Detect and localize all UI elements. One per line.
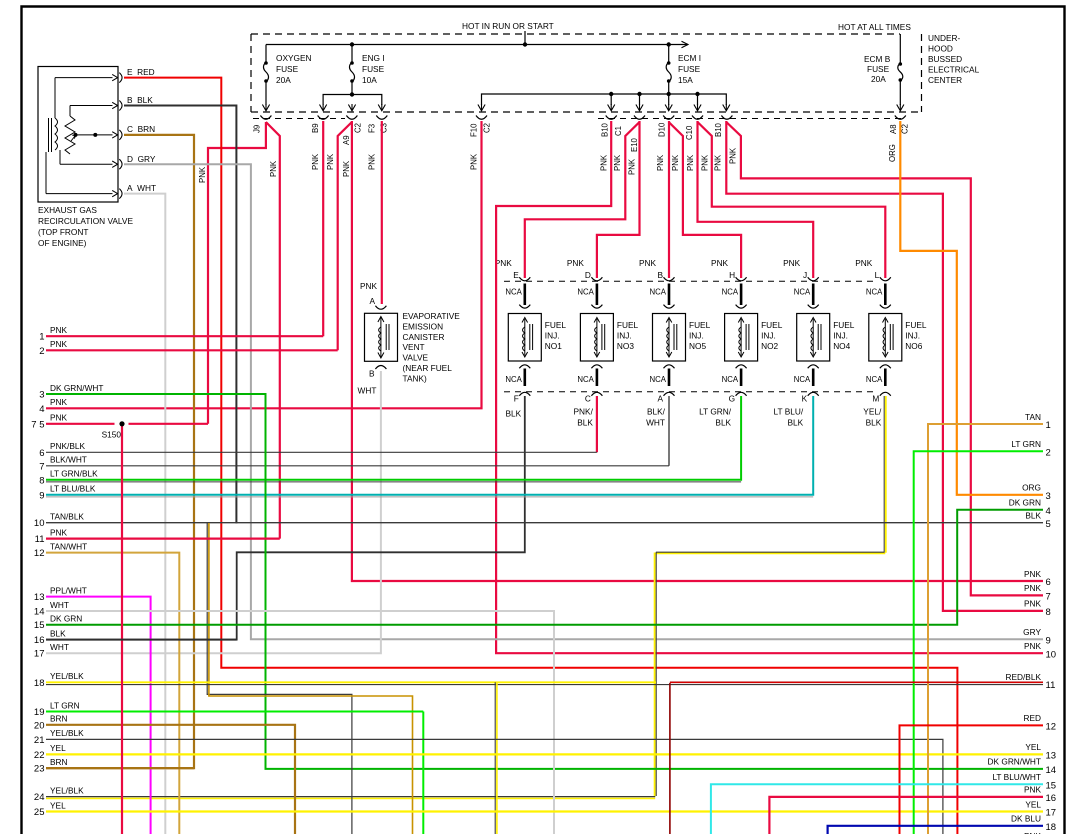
svg-text:4: 4 <box>1046 506 1051 517</box>
row 7 BLK/WHT lead <box>46 465 669 467</box>
svg-text:10: 10 <box>34 518 45 529</box>
wire PNK S150 drop <box>121 424 123 834</box>
svg-text:D: D <box>585 270 591 280</box>
svg-text:PNK: PNK <box>729 147 738 164</box>
svg-text:8: 8 <box>1046 607 1051 618</box>
svg-text:F10: F10 <box>470 123 479 137</box>
svg-text:PNK: PNK <box>1024 583 1042 593</box>
EGR coil (solenoid) <box>49 118 58 152</box>
svg-text:PNK: PNK <box>470 153 479 170</box>
svg-text:12: 12 <box>34 548 45 559</box>
wire PNK A9 to row 2 <box>338 122 352 350</box>
svg-text:TAN/BLK: TAN/BLK <box>50 512 84 522</box>
fuse OXYGEN FUSE 20A <box>264 45 269 106</box>
row 8 black stripe <box>46 481 741 483</box>
svg-text:C1: C1 <box>614 126 623 136</box>
wire YEL-BLK pin M black stripe <box>656 552 885 796</box>
svg-text:16: 16 <box>1046 793 1057 804</box>
svg-text:4: 4 <box>39 404 44 415</box>
svg-text:NCA: NCA <box>650 288 667 297</box>
svg-text:B10: B10 <box>601 122 610 137</box>
junction dots on top bus <box>350 42 671 46</box>
svg-text:WHT: WHT <box>50 600 69 610</box>
svg-text:PNK: PNK <box>269 160 278 177</box>
svg-text:TAN: TAN <box>1025 412 1041 422</box>
row 11 PNK <box>46 537 280 539</box>
svg-text:11: 11 <box>35 534 45 545</box>
bus HOT IN RUN OR START <box>266 44 684 46</box>
svg-text:WHT: WHT <box>646 418 665 428</box>
svg-text:INJ.: INJ. <box>617 330 632 340</box>
svg-text:DK GRN: DK GRN <box>50 614 82 624</box>
svg-text:RED: RED <box>1023 713 1041 723</box>
EGR valve box <box>38 67 118 203</box>
wire color labels rotated PNK/ORG <box>198 144 897 183</box>
svg-text:PNK: PNK <box>50 413 68 423</box>
svg-text:3: 3 <box>39 390 44 401</box>
wire DK GRN-WHT row 3 to right row 14 <box>46 394 1043 769</box>
svg-text:PNK: PNK <box>613 154 622 171</box>
right row 11 red top <box>670 681 1043 683</box>
svg-text:NCA: NCA <box>577 288 594 297</box>
svg-text:PNK: PNK <box>50 397 68 407</box>
svg-text:PNK: PNK <box>1024 599 1042 609</box>
svg-text:19: 19 <box>34 707 45 718</box>
svg-text:FUEL: FUEL <box>617 320 639 330</box>
svg-text:PPL/WHT: PPL/WHT <box>50 585 87 595</box>
svg-text:ORG: ORG <box>1022 483 1041 493</box>
svg-text:YEL/BLK: YEL/BLK <box>50 785 84 795</box>
right pin numbers and wire labels <box>988 412 1057 834</box>
svg-text:1: 1 <box>1046 420 1051 431</box>
svg-text:13: 13 <box>1046 751 1057 762</box>
wire YEL-BLK injector NO6 pin M <box>883 396 885 553</box>
svg-text:13: 13 <box>34 592 45 603</box>
svg-text:M: M <box>872 394 879 404</box>
svg-text:2: 2 <box>1046 447 1051 458</box>
svg-text:16: 16 <box>34 635 45 646</box>
row 18 YEL/BLK black <box>46 684 1043 686</box>
row 2 PNK <box>46 349 338 351</box>
node tick under HOT IN RUN OR START <box>524 31 526 45</box>
svg-text:YEL: YEL <box>50 743 66 753</box>
svg-text:PNK/BLK: PNK/BLK <box>50 441 86 451</box>
svg-text:PNK: PNK <box>855 258 873 268</box>
wire PNK C2 to right row 6 <box>352 121 1043 581</box>
svg-text:RECIRCULATION VALVE: RECIRCULATION VALVE <box>38 216 133 226</box>
wire PNK right row 16 <box>769 797 1043 834</box>
svg-text:10: 10 <box>1046 649 1057 660</box>
EVAP pin B connector arc <box>375 366 386 370</box>
svg-text:NO6: NO6 <box>905 341 922 351</box>
row 1 PNK <box>46 335 323 337</box>
svg-text:9: 9 <box>39 490 44 501</box>
EVAP pin A connector arc <box>375 306 386 310</box>
wire PNK ECM B10 to right row 10 <box>496 121 1043 653</box>
svg-text:C2: C2 <box>354 123 363 133</box>
wire DK BLU right row 18 <box>828 826 1043 834</box>
svg-text:LT GRN: LT GRN <box>50 700 80 710</box>
wire PNK B9 to row 1 <box>322 121 324 336</box>
svg-text:PNK: PNK <box>783 258 801 268</box>
svg-text:GRY: GRY <box>1023 627 1041 637</box>
injector lower wire color labels <box>506 407 882 428</box>
row 10 branch tan <box>209 523 413 834</box>
svg-text:INJ.: INJ. <box>689 330 704 340</box>
svg-text:11: 11 <box>1046 680 1056 691</box>
svg-text:E10: E10 <box>630 137 639 152</box>
svg-text:BLK: BLK <box>1025 511 1041 521</box>
wire PPL-WHT row 13 <box>46 597 151 834</box>
svg-text:BRN: BRN <box>50 757 68 767</box>
svg-text:PNK: PNK <box>1024 569 1042 579</box>
svg-text:FUSE: FUSE <box>362 64 385 74</box>
svg-text:PNK: PNK <box>567 258 585 268</box>
svg-text:DK BLU: DK BLU <box>1011 814 1041 824</box>
svg-text:PNK: PNK <box>1024 785 1042 795</box>
svg-text:NO4: NO4 <box>833 341 850 351</box>
svg-text:UNDER-: UNDER- <box>928 33 961 43</box>
svg-text:ORG: ORG <box>888 144 897 162</box>
svg-text:PNK: PNK <box>50 527 68 537</box>
svg-text:BUSSED: BUSSED <box>928 54 962 64</box>
svg-text:9: 9 <box>1046 635 1051 646</box>
wire PNK C10 to injector NO4 pin J <box>698 121 814 278</box>
svg-text:BLK: BLK <box>715 418 731 428</box>
svg-text:K: K <box>802 394 808 404</box>
svg-text:CENTER: CENTER <box>928 75 962 85</box>
wire LT GRN right row 2 <box>914 451 1043 834</box>
svg-text:PNK: PNK <box>50 339 68 349</box>
row 18 branch black <box>494 682 496 834</box>
svg-text:D GRY: D GRY <box>127 154 156 164</box>
fuel injector U3 NO5 <box>653 277 686 396</box>
svg-text:LT GRN: LT GRN <box>1011 439 1041 449</box>
svg-text:C10: C10 <box>685 125 694 140</box>
fuel injector U4 NO2 <box>725 277 758 396</box>
svg-text:FUEL: FUEL <box>833 320 855 330</box>
fuel injector U2 NO3 <box>580 277 613 396</box>
left pin numbers and wire labels <box>31 325 103 818</box>
svg-text:ENG I: ENG I <box>362 53 385 63</box>
svg-text:EXHAUST GAS: EXHAUST GAS <box>38 205 97 215</box>
row 16 BLK <box>46 639 237 641</box>
wire BLK EGR pin B <box>124 106 236 524</box>
svg-text:PNK: PNK <box>711 258 729 268</box>
fuse output arrows at dashed line <box>262 104 904 111</box>
svg-text:(NEAR FUEL: (NEAR FUEL <box>403 363 453 373</box>
wire BRN row 23 <box>46 767 194 769</box>
svg-text:HOT IN RUN OR START: HOT IN RUN OR START <box>462 21 554 31</box>
svg-text:C2: C2 <box>483 123 492 133</box>
svg-text:25: 25 <box>34 807 45 818</box>
svg-text:FUEL: FUEL <box>689 320 711 330</box>
injector bank dashed connector lines <box>504 281 878 392</box>
wire LT BLU-WHT right row 15 <box>711 784 1043 834</box>
svg-text:PNK: PNK <box>714 154 723 171</box>
svg-text:24: 24 <box>34 792 45 803</box>
svg-text:CANISTER: CANISTER <box>403 332 445 342</box>
svg-text:5: 5 <box>1046 519 1051 530</box>
svg-text:H: H <box>729 270 735 280</box>
svg-text:LT GRN/: LT GRN/ <box>699 407 732 417</box>
svg-text:BLK: BLK <box>506 409 522 419</box>
svg-text:INJ.: INJ. <box>545 330 560 340</box>
svg-text:ECM I: ECM I <box>678 53 701 63</box>
svg-text:3: 3 <box>1046 491 1051 502</box>
svg-text:NO2: NO2 <box>761 341 778 351</box>
svg-text:BLK: BLK <box>788 418 804 428</box>
connector face dashed lines <box>253 118 906 120</box>
wire YEL row 22 to right row 13 <box>46 753 1043 755</box>
svg-text:DK GRN: DK GRN <box>1009 498 1041 508</box>
wire PNK D10 branch to injector NO2 pin H <box>669 122 741 278</box>
ECM I rail <box>482 94 727 105</box>
svg-text:FUEL: FUEL <box>905 320 927 330</box>
svg-text:B9: B9 <box>311 123 320 133</box>
svg-text:BLK/: BLK/ <box>647 407 666 417</box>
svg-text:PNK: PNK <box>1024 641 1042 651</box>
svg-text:21: 21 <box>34 735 45 746</box>
wire YEL row 25 to right row 17 <box>46 810 1043 812</box>
svg-text:BLK: BLK <box>50 628 66 638</box>
svg-text:1: 1 <box>39 332 44 343</box>
svg-text:C BRN: C BRN <box>127 124 155 134</box>
svg-text:PNK: PNK <box>671 154 680 171</box>
wire TAN-WHT row 12 <box>46 553 179 834</box>
svg-text:NO5: NO5 <box>689 341 706 351</box>
wire RED-BLK right row 11 <box>670 682 1043 834</box>
wire WHT row 14 <box>46 611 554 834</box>
svg-text:PNK/: PNK/ <box>574 407 594 417</box>
svg-text:ELECTRICAL: ELECTRICAL <box>928 65 980 75</box>
connector arcs below dashed line <box>260 116 905 120</box>
wire TAN right row 1 <box>928 424 1043 834</box>
svg-text:NCA: NCA <box>866 288 883 297</box>
svg-text:A: A <box>370 296 376 306</box>
svg-text:NCA: NCA <box>505 288 522 297</box>
svg-text:J9: J9 <box>253 125 262 133</box>
svg-text:BRN: BRN <box>50 714 68 724</box>
svg-text:PNK: PNK <box>656 154 665 171</box>
fuel injector U6 NO6 <box>869 277 902 396</box>
svg-text:EVAPORATIVE: EVAPORATIVE <box>403 311 461 321</box>
svg-text:15A: 15A <box>678 75 693 85</box>
svg-text:22: 22 <box>34 750 45 761</box>
svg-text:PNK: PNK <box>686 154 695 171</box>
svg-text:NO1: NO1 <box>545 341 562 351</box>
svg-text:B: B <box>369 369 375 379</box>
wire BRN row 20 <box>46 725 295 834</box>
svg-text:14: 14 <box>1046 765 1057 776</box>
svg-text:OXYGEN: OXYGEN <box>276 53 312 63</box>
svg-text:14: 14 <box>34 607 45 618</box>
svg-text:YEL/BLK: YEL/BLK <box>50 728 84 738</box>
svg-text:F3: F3 <box>368 124 377 133</box>
wire PNK B10 to right row 8 <box>726 121 1043 611</box>
svg-text:PNK: PNK <box>701 154 710 171</box>
wire DK GRN row 15 to right row 4 <box>46 510 1043 625</box>
terminal labels rotated <box>253 122 910 152</box>
svg-text:NCA: NCA <box>505 375 522 384</box>
EGR internal wiring <box>46 78 113 194</box>
svg-text:PNK: PNK <box>50 325 68 335</box>
svg-text:OF ENGINE): OF ENGINE) <box>38 238 87 248</box>
fuse ECM B FUSE 20A <box>898 34 903 105</box>
svg-text:15: 15 <box>34 620 45 631</box>
wire BLK injector NO1 pin F to row 16 <box>46 396 525 640</box>
svg-text:FUSE: FUSE <box>678 64 701 74</box>
svg-text:L: L <box>875 270 880 280</box>
svg-text:INJ.: INJ. <box>833 330 848 340</box>
svg-text:PNK: PNK <box>198 166 207 183</box>
svg-text:J: J <box>803 270 807 280</box>
svg-text:A8: A8 <box>889 124 898 134</box>
svg-text:YEL: YEL <box>1025 799 1041 809</box>
wire PNK J9 to row 5 <box>208 122 266 424</box>
svg-text:INJ.: INJ. <box>905 330 920 340</box>
svg-text:TANK): TANK) <box>403 373 428 383</box>
svg-text:C: C <box>585 394 591 404</box>
svg-text:FUEL: FUEL <box>761 320 783 330</box>
row 5 PNK <box>46 423 208 425</box>
svg-text:17: 17 <box>34 649 45 660</box>
svg-text:HOOD: HOOD <box>928 44 953 54</box>
svg-text:F: F <box>514 394 519 404</box>
wire PNK B10 branch to right row 7 <box>726 122 1043 595</box>
wire LT GRN row 19 <box>46 711 423 713</box>
wire LT GRN-BLK injector NO2 pin G to row 8 <box>46 396 741 480</box>
svg-text:NCA: NCA <box>577 375 594 384</box>
svg-text:NCA: NCA <box>866 375 883 384</box>
svg-text:(TOP FRONT: (TOP FRONT <box>38 227 88 237</box>
wire PNK C1 to injector NO1 pin E <box>525 122 640 278</box>
wire RED EGR pin E <box>124 78 957 834</box>
EGR pin arrows and arcs <box>119 73 122 199</box>
svg-text:INJ.: INJ. <box>761 330 776 340</box>
svg-text:20A: 20A <box>276 75 291 85</box>
row 24 YEL/BLK black <box>46 796 655 798</box>
svg-text:NCA: NCA <box>650 375 667 384</box>
svg-text:BLK: BLK <box>577 418 593 428</box>
svg-text:A: A <box>657 394 663 404</box>
svg-text:PNK: PNK <box>495 258 513 268</box>
wire GRY EGR pin D to right row 9 <box>124 164 1043 639</box>
wire PNK E10 to injector NO3 pin D <box>597 121 640 278</box>
svg-text:NCA: NCA <box>794 375 811 384</box>
wire PNK C10 branch to injector NO6 pin L <box>698 122 886 278</box>
svg-text:G: G <box>729 394 735 404</box>
svg-text:18: 18 <box>34 678 45 689</box>
wire YEL-BLK injector NO6 pin M yellow <box>655 396 886 797</box>
row 18 branch yellow <box>496 682 498 834</box>
svg-text:LT BLU/BLK: LT BLU/BLK <box>50 484 96 494</box>
wire WHT EVAP pin B to row 17 <box>46 371 381 653</box>
svg-text:NCA: NCA <box>722 375 739 384</box>
svg-text:PNK: PNK <box>600 154 609 171</box>
ENG I fuse splitter rail <box>323 95 382 106</box>
svg-text:A9: A9 <box>342 135 351 145</box>
svg-text:LT BLU/: LT BLU/ <box>774 407 804 417</box>
svg-text:DK GRN/WHT: DK GRN/WHT <box>50 383 103 393</box>
wire ORG A8-C2 to right row 3 <box>900 121 1043 495</box>
svg-text:23: 23 <box>34 764 45 775</box>
row 9 stripe <box>46 496 813 498</box>
svg-text:FUSE: FUSE <box>867 64 890 74</box>
svg-text:D10: D10 <box>658 122 667 137</box>
row 10 branch black <box>207 523 352 834</box>
svg-text:E RED: E RED <box>127 67 155 77</box>
svg-text:17: 17 <box>1046 808 1057 819</box>
svg-text:LT GRN/BLK: LT GRN/BLK <box>50 469 98 479</box>
row 18 YEL/BLK yellow <box>46 681 656 683</box>
svg-text:12: 12 <box>1046 722 1057 733</box>
wire PNK F10-C2 to row 4 <box>46 121 482 408</box>
svg-text:E: E <box>513 270 519 280</box>
svg-text:YEL: YEL <box>50 800 66 810</box>
wire PNK-BLK injector NO3 pin C <box>596 396 598 452</box>
svg-text:PNK: PNK <box>326 153 335 170</box>
svg-text:A WHT: A WHT <box>127 183 156 193</box>
svg-text:PNK: PNK <box>311 153 320 170</box>
row 21 YEL/BLK <box>46 739 943 834</box>
svg-text:EMISSION: EMISSION <box>403 321 444 331</box>
EGR potentiometer <box>65 116 79 154</box>
bus arrow right <box>682 41 689 47</box>
svg-text:YEL/: YEL/ <box>863 407 882 417</box>
svg-text:TAN/WHT: TAN/WHT <box>50 541 87 551</box>
svg-text:YEL: YEL <box>1025 742 1041 752</box>
svg-text:7: 7 <box>39 461 44 472</box>
svg-text:ECM B: ECM B <box>864 54 891 64</box>
svg-text:S150: S150 <box>102 430 122 440</box>
svg-text:WHT: WHT <box>358 386 377 396</box>
svg-text:15: 15 <box>1046 781 1057 792</box>
EVAP canister vent valve <box>365 313 398 361</box>
row 6 PNK/BLK lead <box>46 451 597 453</box>
wire LT BLU-BLK injector NO4 pin K to row 9 <box>46 396 813 495</box>
svg-text:B10: B10 <box>714 122 723 137</box>
svg-text:WHT: WHT <box>50 642 69 652</box>
svg-text:YEL/BLK: YEL/BLK <box>50 671 84 681</box>
svg-text:NO3: NO3 <box>617 341 634 351</box>
svg-text:10A: 10A <box>362 75 377 85</box>
EVAP internal coil <box>379 317 389 359</box>
svg-text:LT BLU/WHT: LT BLU/WHT <box>992 772 1041 782</box>
wire BRN EGR pin C to row 23 <box>46 135 194 768</box>
svg-text:NCA: NCA <box>794 288 811 297</box>
svg-text:PNK: PNK <box>342 160 351 177</box>
node S150 <box>119 421 124 426</box>
wire WHT EGR pin A <box>124 194 165 834</box>
svg-text:6: 6 <box>39 448 44 459</box>
svg-text:7: 7 <box>1046 592 1051 603</box>
fuse ECM I FUSE 15A <box>666 45 671 95</box>
svg-text:FUEL: FUEL <box>545 320 567 330</box>
wire PNK D10 to injector NO5 pin B <box>668 121 670 278</box>
fuel injector U1 NO1 <box>508 277 541 396</box>
wire PNK F3-C3 to EVAP pin A <box>381 121 383 304</box>
svg-text:20: 20 <box>34 720 45 731</box>
svg-text:8: 8 <box>39 475 44 486</box>
svg-text:BLK/WHT: BLK/WHT <box>50 455 87 465</box>
svg-text:6: 6 <box>1046 577 1051 588</box>
svg-text:PNK: PNK <box>639 258 657 268</box>
svg-text:VENT: VENT <box>403 342 425 352</box>
svg-text:FUSE: FUSE <box>276 64 299 74</box>
row 24 YEL/BLK yellow <box>46 797 655 799</box>
UBEC dashed box <box>251 34 922 112</box>
